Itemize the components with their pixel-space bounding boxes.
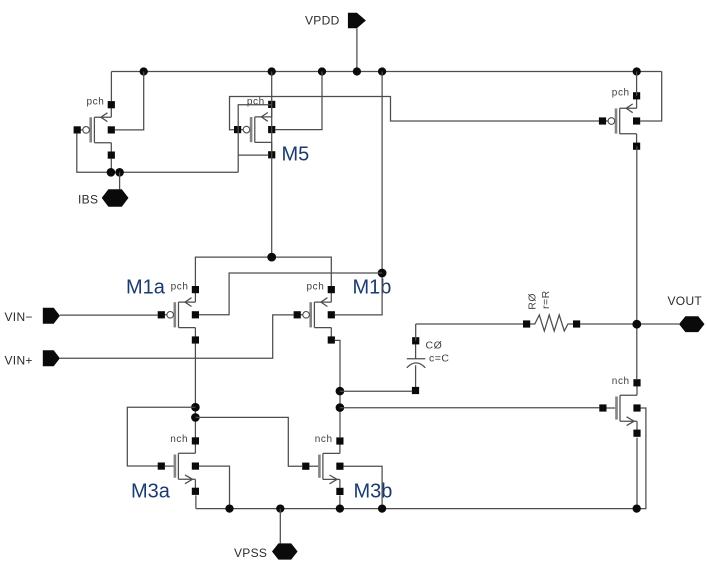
wire VIN- to M1a gate	[60, 314, 158, 316]
wire mirror bias line to M7 gate	[230, 97, 600, 130]
junction bulk line	[378, 269, 387, 278]
wire VIN+ to M1b gate	[60, 315, 294, 358]
svg-text:CØ: CØ	[426, 340, 443, 352]
junction VPSS rail / M3b bulk	[378, 504, 386, 512]
resistor R0	[523, 290, 580, 331]
wire VOUT column	[636, 146, 638, 379]
transistor M1a (pch)	[158, 282, 199, 344]
power pin VPSS	[234, 543, 298, 560]
junction VPDD rail / VPDD riser	[353, 67, 361, 75]
capacitor C0	[407, 337, 450, 394]
wire M0 gate to IBS node	[77, 133, 111, 172]
junction VPSS rail / M3a bulk	[225, 504, 233, 512]
junction first-stage output / C0	[336, 387, 345, 396]
svg-text:IBS: IBS	[78, 193, 98, 207]
wire IBS node	[111, 171, 238, 173]
junction VPDD rail / nwell bulk line	[378, 67, 386, 75]
transistor M8 (nch, output stage)	[599, 376, 640, 437]
wire IBS pin stub	[119, 172, 121, 189]
wire M3b gate line	[195, 417, 302, 466]
svg-text:pch: pch	[171, 282, 189, 293]
wire R0 to VOUT	[580, 323, 679, 325]
svg-text:M3a: M3a	[131, 481, 171, 503]
wire to C0 bottom plate	[340, 390, 412, 392]
junction VPDD rail / M5 bulk	[318, 67, 326, 75]
wire M5 gate-drain jog	[238, 154, 268, 156]
wire M8 source to VPSS rail	[636, 438, 638, 509]
wire rail drop to M0 source	[110, 72, 112, 102]
wire M1b drain column	[335, 340, 340, 438]
wire VPDD riser	[356, 28, 358, 71]
wire M1a drain column	[194, 344, 196, 438]
svg-text:VIN−: VIN−	[5, 310, 33, 324]
wire compensation	[416, 323, 523, 325]
wire M0 bulk to rail	[115, 72, 144, 130]
transistor M3a (nch)	[158, 434, 199, 495]
wire M5 bulk to rail	[275, 72, 322, 130]
junction tail node	[267, 253, 276, 262]
wire M5 gate riser	[238, 105, 272, 173]
svg-text:VIN+: VIN+	[5, 354, 33, 368]
wire M3b source to rail	[339, 495, 341, 508]
junction VPSS rail / M8 source	[633, 504, 641, 512]
power pin VPDD	[305, 13, 366, 28]
svg-text:nch: nch	[315, 434, 333, 445]
svg-text:VPDD: VPDD	[305, 14, 340, 28]
wire output gate line	[340, 407, 600, 409]
wire M8 bulk to VPSS rail	[637, 408, 646, 509]
junction VOUT node	[632, 320, 641, 329]
wire C0 top riser	[415, 324, 417, 341]
svg-text:VPSS: VPSS	[234, 546, 267, 560]
junction VPSS rail / VPSS pin	[276, 504, 284, 512]
wire tail	[195, 257, 331, 287]
wire M3a gate loop	[127, 407, 195, 466]
transistor M3b (nch)	[302, 434, 343, 495]
transistor M1b (pch)	[294, 282, 335, 344]
junction VPDD rail / M0 bulk	[140, 67, 148, 75]
svg-text:RØ: RØ	[526, 293, 538, 310]
transistor M5 (pch)	[234, 96, 275, 158]
wire M5 column	[271, 72, 273, 258]
svg-text:r=R: r=R	[540, 290, 552, 309]
junction IBS node 2	[115, 168, 124, 177]
svg-text:c=C: c=C	[429, 353, 449, 365]
svg-text:pch: pch	[612, 88, 630, 99]
svg-text:M3b: M3b	[354, 481, 393, 503]
input pin VIN+	[5, 350, 60, 367]
wire M7 bulk to rail	[640, 72, 662, 122]
junction VPDD rail / M5 source	[268, 67, 276, 75]
wire bulk	[335, 72, 382, 315]
transistor M7 (pch, output stage)	[599, 88, 640, 150]
wire VPSS pin stub	[279, 509, 281, 544]
junction VPSS rail / M3b source	[336, 504, 344, 512]
junction VPDD rail / M7 source	[633, 67, 641, 75]
wire M7 source to rail	[636, 72, 638, 96]
svg-text:M1a: M1a	[126, 276, 166, 298]
junction M3a drain node	[191, 403, 200, 412]
svg-text:M1b: M1b	[353, 276, 392, 298]
wire M3a bulk to rail	[199, 466, 230, 509]
svg-text:pch: pch	[307, 282, 325, 293]
svg-text:nch: nch	[170, 434, 188, 445]
svg-text:pch: pch	[87, 97, 105, 108]
wire VPSS rail	[196, 508, 637, 510]
io pin IBS	[78, 189, 129, 207]
wire M3b bulk to rail	[343, 466, 382, 508]
wire M3a source to rail	[195, 495, 197, 508]
wire M0 drain to IBS node	[110, 158, 112, 172]
svg-text:M5: M5	[282, 144, 310, 166]
svg-text:pch: pch	[247, 96, 265, 107]
junction first-stage output / M8 gate	[336, 403, 345, 412]
svg-text:nch: nch	[612, 376, 630, 387]
wire bulk branch to M1a	[199, 273, 382, 315]
wire VPDD rail	[111, 71, 661, 73]
transistor M0 (pch diode, IBS mirror)	[74, 97, 115, 159]
input pin VIN-	[5, 308, 60, 324]
junction IBS node	[107, 168, 116, 177]
io pin VOUT	[668, 294, 705, 332]
svg-text:VOUT: VOUT	[668, 294, 703, 308]
junction M3 gate node	[191, 413, 200, 422]
